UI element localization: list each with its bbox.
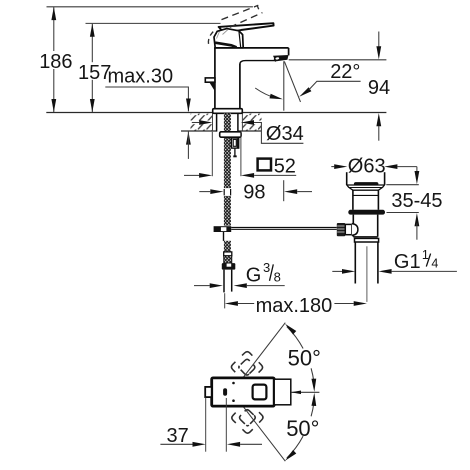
hole edge lines [212, 113, 214, 131]
dimension 157 [78, 24, 111, 113]
knurled knob [337, 223, 346, 236]
svg-text:Ø63: Ø63 [348, 155, 386, 177]
flange walls [346, 172, 348, 185]
svg-text:1: 1 [422, 248, 429, 262]
hose end: ring, thread, nut [224, 252, 232, 256]
deck bottom line [181, 130, 216, 132]
deck hole (white gap) [213, 113, 243, 131]
pop-up actuator rod [231, 226, 337, 228]
pop-up flag tab [205, 387, 212, 397]
svg-text:37: 37 [167, 425, 189, 447]
braided hose lower [224, 241, 231, 252]
dimension 94 [289, 32, 390, 141]
svg-text:Ø34: Ø34 [266, 123, 304, 145]
body footprint [212, 378, 275, 406]
horizontal reference with small arrow [291, 391, 319, 393]
collar [345, 224, 352, 234]
svg-text:35-45: 35-45 [391, 190, 442, 212]
spout underside [240, 61, 276, 65]
svg-text:22°: 22° [330, 61, 360, 83]
ball housing bump [352, 224, 358, 236]
svg-text:max.30: max.30 [108, 66, 174, 88]
spout footprint [274, 379, 291, 405]
svg-text:G1: G1 [394, 251, 421, 273]
braided hose upper [224, 114, 231, 189]
svg-text:8: 8 [274, 270, 281, 285]
base plate [213, 109, 243, 114]
svg-text:52: 52 [274, 156, 296, 178]
dashed handle ghost lower [231, 401, 265, 435]
dimension square-52 [184, 132, 296, 178]
svg-text:50°: 50° [286, 416, 319, 441]
mounting nut [220, 132, 241, 137]
handle lever blade [219, 23, 274, 33]
plug disc [354, 182, 379, 186]
dimension 35-45 [386, 167, 442, 240]
svg-text:4: 4 [431, 257, 438, 271]
body [352, 215, 354, 237]
G 1 1/4 label [332, 248, 457, 274]
tailpipe [354, 242, 356, 284]
svg-text:98: 98 [243, 182, 265, 204]
handle boss [214, 29, 243, 48]
screw dots [232, 382, 235, 385]
T coupler of pop-up rod [214, 226, 232, 232]
inner square (cartridge) [253, 385, 267, 400]
braid gap fitting [223, 188, 232, 196]
svg-text:50°: 50° [288, 346, 321, 371]
dimension 98 [199, 180, 312, 203]
dimension 186 [39, 7, 72, 112]
neck [352, 190, 354, 210]
svg-text:max.180: max.180 [256, 295, 333, 317]
radial lines 50deg [239, 323, 285, 383]
center axis / max180 extension [366, 246, 368, 302]
dimension max.30 [105, 66, 190, 159]
braided hose middle [224, 196, 231, 226]
svg-text:G: G [246, 265, 262, 287]
svg-text:157: 157 [78, 62, 111, 84]
aerator [273, 55, 289, 61]
pivot pill [223, 388, 227, 396]
faucet body [214, 48, 289, 109]
flange skirt [347, 185, 385, 190]
dimension max.180 [225, 293, 367, 317]
G 3/8 label [194, 260, 285, 288]
pop-up rod housing below deck [231, 138, 238, 148]
deck surface line [46, 112, 386, 114]
rubber gasket [348, 210, 385, 215]
svg-text:186: 186 [39, 51, 72, 73]
tail joint [353, 236, 377, 238]
svg-text:94: 94 [368, 77, 390, 99]
deck cross-section hatching [191, 114, 262, 121]
shank walls in deck hole [216, 113, 218, 131]
swing arcs (center 224.3,392.3 r=90) [287, 327, 303, 349]
dimension Ø34 leader [192, 120, 304, 145]
dashed handle ghost upper [230, 350, 264, 384]
svg-text:3: 3 [263, 260, 270, 275]
dashed lifted-lever ghost [208, 5, 262, 47]
dimension 37 [160, 397, 262, 451]
22deg spray angle group [255, 61, 360, 111]
ref line B (top of lever at rest, 157) [86, 22, 221, 24]
pop-up rod flag on body [205, 78, 215, 82]
ref line A (top of lifted lever, 186) [47, 6, 253, 8]
